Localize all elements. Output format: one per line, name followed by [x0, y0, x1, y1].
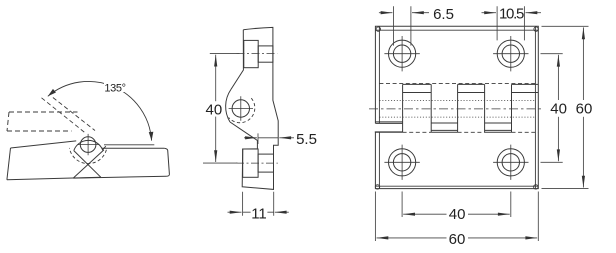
left leaf top edge: [11, 141, 77, 148]
band dotted line upper: [379, 99, 535, 101]
corner radius circle BR: [534, 185, 538, 189]
dim 5.5 arrows: [244, 137, 257, 139]
left leaf bottom edge: [7, 177, 101, 180]
dim 11 line: [243, 211, 274, 213]
dim right 40 extension lines: [541, 54, 563, 163]
knuckle top solid edges: [403, 83, 539, 85]
hole BR inner: [502, 154, 519, 171]
strip left edge upper: [231, 30, 244, 90]
phantom leaf diagonal D2: [53, 98, 95, 131]
hole TR outer: [497, 40, 524, 67]
hole TR crosshair: [493, 36, 528, 71]
dim bottom 40 extension lines: [402, 192, 511, 218]
dim 5.5 tick: [257, 133, 259, 144]
dim right 40 line: [557, 55, 559, 100]
corner radius circle TL: [376, 27, 380, 31]
right leaf thin back edge: [104, 144, 154, 146]
svg-text:11: 11: [251, 206, 267, 223]
left leaf end face: [74, 151, 101, 178]
knuckle boss hidden arc: [69, 148, 106, 164]
hole BR outer: [497, 149, 524, 176]
dim mid 40 extension lines: [203, 54, 240, 164]
band hidden bottom line: [403, 131, 539, 133]
dim right 60 line: [582, 27, 584, 100]
top through hole: [258, 46, 273, 62]
right leaf right end: [164, 148, 169, 176]
hole BL outer: [389, 149, 416, 176]
knuckle lower inner lines A: [375, 130, 512, 132]
pin crosshair: [77, 134, 98, 155]
left leaf left end: [7, 148, 11, 180]
135 deg arc: [48, 81, 152, 140]
dim 6.5 extension lines: [394, 6, 411, 45]
phantom leaf edge H2: [7, 130, 72, 132]
hole TL inner: [393, 45, 410, 62]
bottom through hole: [258, 154, 273, 172]
hole TL crosshair: [384, 36, 419, 71]
dim 10.5 extension lines: [497, 6, 524, 40]
svg-text:40: 40: [550, 101, 567, 118]
band dotted line lower: [379, 116, 535, 118]
phantom leaf edge H1: [9, 111, 78, 113]
dim right 60 extension lines: [542, 26, 589, 188]
bottom hole centerline: [236, 162, 278, 164]
phantom leaf end: [7, 112, 9, 131]
middle boss hidden arc: [229, 98, 255, 123]
label 135 deg: [104, 83, 127, 92]
plate outer rect: [375, 26, 538, 188]
plate inner chamfer lines: [375, 26, 538, 188]
svg-text:6.5: 6.5: [433, 6, 454, 23]
knuckle lower solid lines A: [375, 122, 511, 124]
bottom counterbore: [243, 149, 258, 177]
hole TL outer: [389, 40, 416, 67]
svg-text:5.5: 5.5: [296, 131, 317, 148]
knuckle bottom solid edges: [375, 131, 511, 133]
svg-text:60: 60: [449, 231, 466, 248]
hole BL inner: [393, 154, 410, 171]
dim bottom 60 line: [377, 237, 447, 239]
pin circle: [80, 137, 96, 153]
hole TR inner: [502, 45, 519, 62]
corner radius circle BL: [375, 185, 379, 189]
middle pin crosshair: [229, 96, 253, 120]
dim 11 arrows: [228, 211, 242, 213]
hole BR crosshair: [493, 145, 528, 180]
label 10.5: [498, 6, 524, 20]
knuckle band hidden top line: [379, 83, 535, 85]
strip outline: [230, 27, 278, 189]
right leaf top edge: [102, 147, 164, 149]
top hole centerline: [237, 53, 278, 55]
dim bottom 60 extension lines: [375, 192, 538, 242]
svg-text:135°: 135°: [104, 82, 125, 94]
right leaf end face: [73, 150, 104, 178]
dim 11 extension lines: [243, 192, 274, 216]
dim 5.5 line: [258, 137, 278, 139]
corner radius circle TR: [534, 27, 538, 31]
svg-text:40: 40: [206, 101, 223, 118]
right leaf bottom edge: [73, 176, 166, 178]
dim 6.5 arrows: [379, 12, 393, 14]
dim mid 40 line: [215, 55, 217, 101]
dim 10.5 arrows: [482, 12, 497, 14]
svg-text:10.5: 10.5: [499, 5, 524, 22]
svg-text:60: 60: [576, 101, 593, 118]
phantom leaf diagonal D1: [42, 98, 87, 134]
knuckle boss solid arc: [74, 140, 106, 150]
svg-text:40: 40: [449, 206, 466, 223]
hole BL crosshair: [384, 145, 419, 180]
knuckle top inner lines: [403, 92, 539, 94]
top counterbore: [244, 40, 258, 67]
dim bottom 40 line: [403, 213, 446, 215]
middle pin circle: [232, 100, 249, 117]
band centerline: [369, 108, 543, 110]
knuckle division verticals: [403, 84, 512, 132]
middle boss solid arc: [226, 90, 231, 122]
